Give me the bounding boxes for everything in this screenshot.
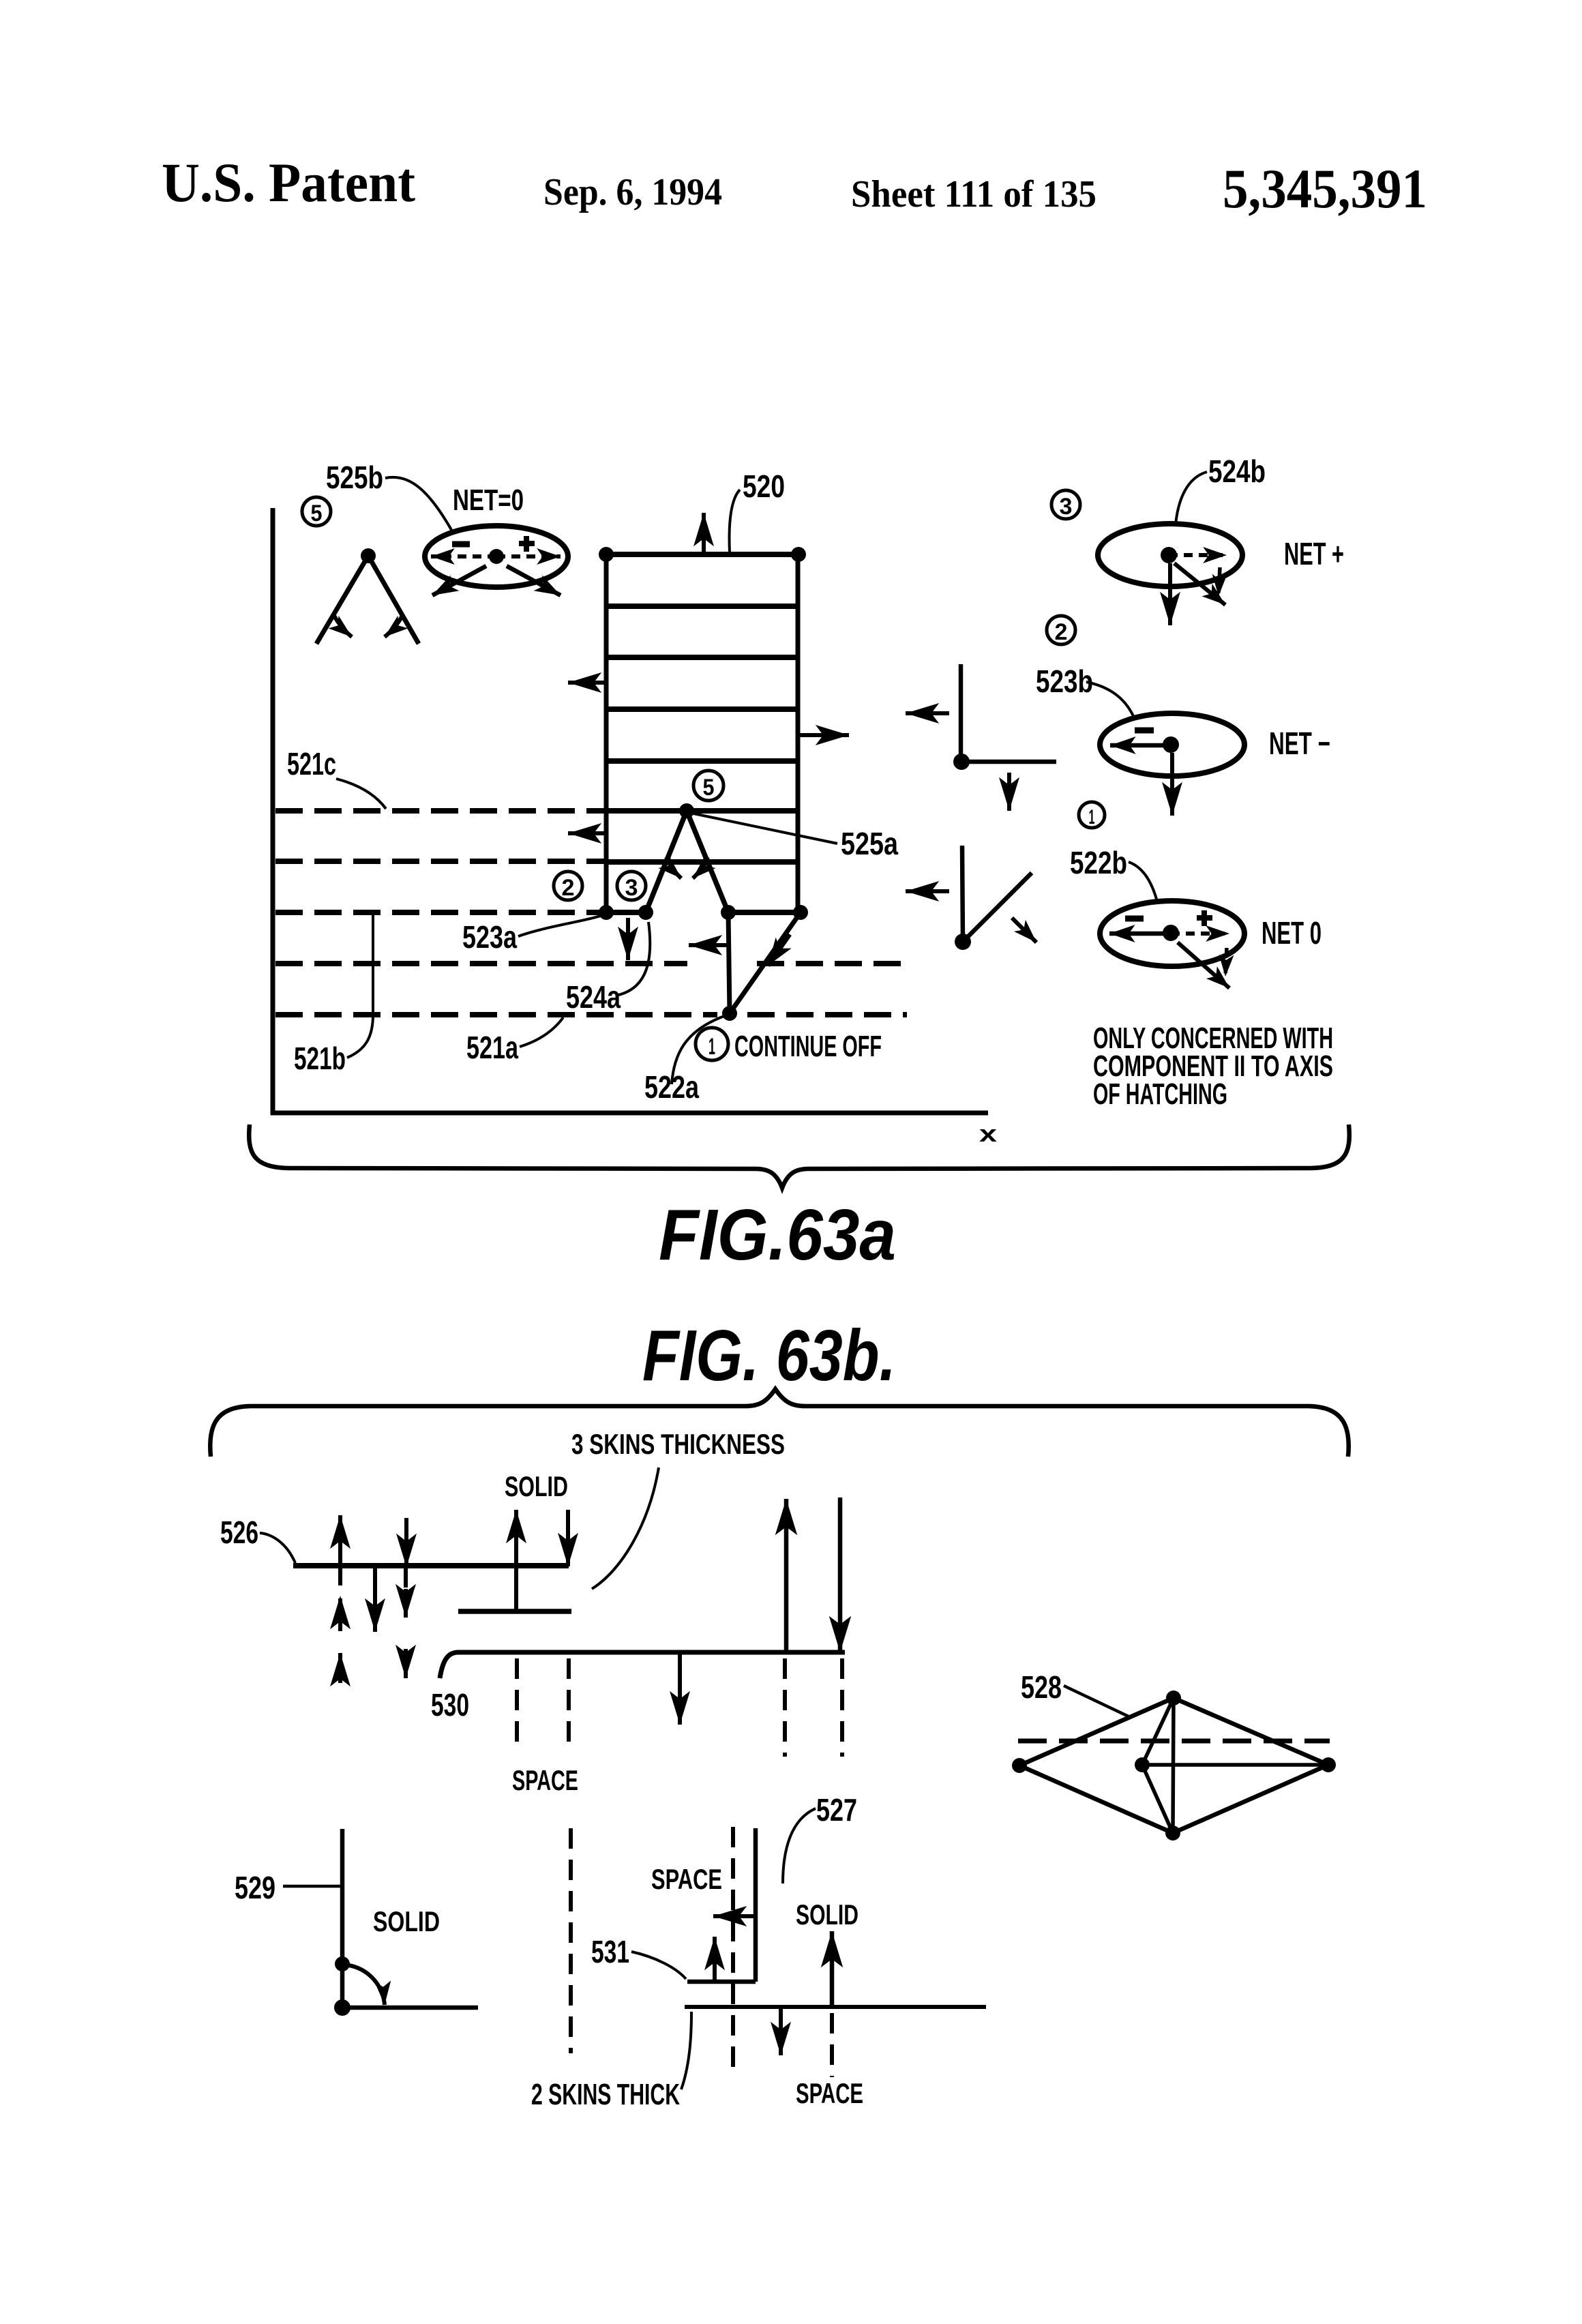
axis symbol 2 corner dot (953, 754, 970, 770)
svg-text:x: x (979, 1121, 997, 1147)
circled 5 top left (302, 497, 331, 526)
header patent number (1223, 158, 1427, 220)
dashed up arrow pair x499 (338, 1596, 342, 1683)
leader 525b (385, 477, 451, 530)
leader 522b (1129, 862, 1157, 902)
down arrow e on 526 (566, 1510, 570, 1566)
svg-text:1: 1 (1089, 806, 1095, 829)
solid vertical 527 (753, 1828, 758, 1982)
dashed center vertical 63b (569, 1828, 573, 2053)
diamond 528 vertex dots (1012, 1690, 1336, 1841)
leader 525a (690, 813, 837, 844)
ellipse NET minus left arrow (1110, 743, 1170, 748)
wire stub below 526 line (404, 1568, 408, 1588)
circled 3 (617, 871, 646, 901)
ellipse NET plus (1098, 524, 1242, 586)
leader 522a (672, 1016, 724, 1084)
svg-text:3: 3 (1060, 494, 1073, 520)
hatched region 520 right edge (796, 554, 801, 912)
FIG 63a axes (271, 508, 988, 1115)
dashed verticals below 530 left (517, 1658, 569, 1751)
ellipse NET=0 center dot (489, 549, 504, 564)
long horizontal line bottom (685, 2005, 986, 2009)
svg-text:SOLID: SOLID (505, 1470, 568, 1502)
label 527 (816, 1792, 857, 1828)
dashed line row4 (275, 961, 907, 966)
label SPACE 527 (651, 1863, 722, 1895)
ellipse NET 0 dashed down arrow (1225, 948, 1227, 977)
svg-text:5,345,391: 5,345,391 (1223, 158, 1427, 220)
ellipse NET=0 down-left arrow (432, 566, 486, 595)
angle symbol right arc arrow (385, 616, 402, 637)
label 524b (1208, 453, 1266, 489)
circled 3 right column (1051, 490, 1080, 520)
note line 1 (1093, 1022, 1333, 1055)
horizontal line 529 (342, 2006, 478, 2010)
node dot 522a (722, 1006, 737, 1021)
ellipse NET minus (1100, 713, 1244, 776)
ellipse NET plus down arrow (1168, 563, 1172, 625)
leader 520 (730, 490, 740, 552)
axis symbol 2 left arrow (906, 711, 949, 715)
header US Patent (162, 151, 415, 213)
svg-text:529: 529 (235, 1870, 275, 1905)
hatched region up arrow (702, 513, 706, 554)
ellipse NET plus dashed down arrow (1219, 567, 1220, 596)
ellipse NET minus minus sign (1135, 728, 1154, 734)
label 521c (287, 746, 336, 781)
ellipse NET 0 minus sign (1125, 916, 1144, 922)
label SPACE bottom (796, 2077, 863, 2109)
svg-text:2: 2 (1055, 619, 1068, 645)
caption FIG. 63b. (642, 1315, 896, 1396)
svg-text:Sheet 111 of 135: Sheet 111 of 135 (851, 173, 1096, 215)
angle symbol left arc arrow (334, 616, 352, 637)
circled 2 right column (1047, 616, 1075, 645)
svg-text:521a: 521a (466, 1030, 518, 1065)
label 528 (1021, 1669, 1062, 1705)
up arrow a on 526 (338, 1515, 342, 1585)
dashed line 521c row1 (275, 808, 606, 814)
down arrow c below 526 (373, 1567, 377, 1632)
dashed verticals below 530 right (785, 1658, 842, 1757)
svg-text:U.S. Patent: U.S. Patent (162, 151, 415, 213)
x axis label (979, 1121, 997, 1147)
label NET 0 (1262, 915, 1322, 951)
svg-text:FIG.63a: FIG.63a (659, 1195, 896, 1275)
note line 2 (1093, 1049, 1333, 1083)
left arrow lower from region (568, 831, 606, 835)
ellipse NET minus down arrow (1170, 753, 1174, 816)
down arrow on 530 (678, 1654, 682, 1725)
dashed vertical below bottom line (830, 2013, 834, 2077)
label 529 (235, 1870, 275, 1905)
middle skin line (458, 1609, 571, 1614)
label 3 SKINS THICKNESS (571, 1428, 785, 1460)
svg-text:524a: 524a (566, 979, 621, 1015)
up arrow 531 (713, 1937, 717, 1980)
label 521a (466, 1030, 518, 1065)
svg-text:NET=0: NET=0 (453, 483, 524, 517)
line 526 (293, 1563, 569, 1568)
axis symbol 1 left arrow (906, 889, 949, 893)
ellipse NET plus diagonal arrow (1174, 563, 1225, 605)
leader 527 (783, 1808, 816, 1883)
svg-text:NET +: NET + (1284, 536, 1344, 571)
ellipse NET 0 left arrow (1109, 932, 1170, 936)
axis symbol 1 diagonal (963, 873, 1032, 942)
leader 528 (1064, 1686, 1130, 1717)
hatched region 520 bottom edge segments (606, 910, 802, 915)
ellipse NET plus dashed right arrow (1169, 553, 1227, 557)
svg-text:FIG. 63b.: FIG. 63b. (642, 1315, 896, 1396)
left arrow 527 (713, 1914, 754, 1918)
label SPACE below 530 (512, 1764, 578, 1796)
svg-text:528: 528 (1021, 1669, 1062, 1705)
V right leg (687, 811, 728, 912)
diamond dashed line (1018, 1739, 1330, 1744)
dashed line row3 (275, 910, 603, 915)
svg-text:NET 0: NET 0 (1262, 915, 1322, 951)
svg-text:5: 5 (311, 501, 323, 526)
left arrow at vertical 522 (689, 943, 727, 947)
dashed vertical 527 group (731, 1827, 735, 2068)
svg-text:SPACE: SPACE (651, 1863, 722, 1895)
leader 523b (1086, 682, 1134, 717)
circled 1 continue off (696, 1028, 728, 1060)
svg-text:CONTINUE OFF: CONTINUE OFF (734, 1030, 882, 1063)
wire diagonal 522 (730, 912, 801, 1013)
node dots on row3 (599, 905, 808, 920)
ellipse NET=0 down-right arrow (507, 566, 561, 595)
arc arrow 529 (342, 1965, 385, 2005)
ellipse NET plus center dot (1161, 547, 1177, 563)
arrow on diagonal (768, 934, 790, 966)
apex left arc arrow (666, 857, 681, 878)
down arrow b on 526 (404, 1518, 408, 1567)
label NET minus (1269, 726, 1330, 761)
svg-text:523b: 523b (1036, 664, 1093, 699)
leader 524a (616, 922, 650, 996)
svg-text:OF HATCHING: OF HATCHING (1093, 1077, 1227, 1111)
label 520 (743, 468, 785, 504)
circled 2 (554, 871, 582, 901)
svg-text:2 SKINS THICK: 2 SKINS THICK (531, 2078, 680, 2111)
axis symbol 2 (961, 664, 1056, 762)
label CONTINUE OFF (734, 1030, 882, 1063)
svg-text:521b: 521b (294, 1041, 346, 1076)
leader 521c (336, 779, 386, 809)
header sheet (851, 173, 1096, 215)
svg-text:530: 530 (431, 1687, 469, 1723)
svg-text:521c: 521c (287, 746, 336, 781)
label SOLID top (505, 1470, 568, 1502)
leader 526 (260, 1533, 295, 1563)
circled 5 near apex (693, 771, 723, 801)
svg-text:3: 3 (625, 875, 638, 901)
svg-text:524b: 524b (1208, 453, 1266, 489)
svg-text:1: 1 (708, 1034, 715, 1060)
leader 2 skins thick (681, 2012, 691, 2089)
axis symbol 1 vertical (962, 846, 963, 942)
right arrow from region (799, 733, 849, 737)
dashed down arrow pair x595 (404, 1589, 408, 1678)
note line 3 (1093, 1077, 1227, 1111)
ellipse NET 0 diagonal arrow (1178, 942, 1229, 988)
svg-text:SOLID: SOLID (796, 1898, 859, 1931)
ellipse NET 0 center dot (1163, 925, 1179, 941)
ellipse NET minus center dot (1163, 736, 1179, 753)
svg-text:3 SKINS THICKNESS: 3 SKINS THICKNESS (571, 1428, 785, 1460)
svg-text:520: 520 (743, 468, 785, 504)
leader 531 (631, 1952, 686, 1979)
vertical line 529 (340, 1829, 345, 2008)
svg-text:522b: 522b (1070, 845, 1127, 880)
down arrow bottom (779, 2008, 783, 2055)
label 522b (1070, 845, 1127, 880)
ellipse NET 0 dashed right arrow (1171, 932, 1229, 936)
hatched region 520 hatch lines (604, 554, 801, 862)
label SOLID 529 (373, 1905, 440, 1937)
node apex dot (679, 803, 694, 818)
ellipse NET=0 minus sign (452, 541, 470, 548)
label 525b (326, 460, 383, 495)
up arrow d through 526 (514, 1510, 518, 1611)
down arrow below node 523a (626, 918, 630, 960)
label 523b (1036, 664, 1093, 699)
label 530 (431, 1687, 469, 1723)
svg-text:NET −: NET − (1269, 726, 1330, 761)
tall up arrow on 530 (784, 1499, 789, 1652)
svg-text:525b: 525b (326, 460, 383, 495)
leader 521a (520, 1017, 563, 1047)
label NET plus (1284, 536, 1344, 571)
apex right arc arrow (693, 857, 708, 878)
caption FIG.63a (659, 1195, 896, 1275)
label 523a (462, 919, 517, 955)
dashed line row5 (275, 1012, 907, 1017)
leader 523a (518, 915, 603, 936)
ellipse NET=0 dashed right arrow (496, 554, 561, 558)
label NET=0 (453, 483, 524, 517)
axis symbol 1 short diagonal arrow (1012, 918, 1036, 942)
header date (543, 171, 722, 213)
label 2 SKINS THICK (531, 2078, 680, 2111)
left arrow upper from region (568, 681, 606, 685)
svg-text:523a: 523a (462, 919, 517, 955)
ellipse NET=0 dashed left arrow (431, 554, 496, 558)
hatched region corner dots (599, 547, 806, 562)
ellipse NET 0 plus sign (1197, 910, 1212, 926)
leader 524b (1176, 472, 1207, 524)
tall up arrow bottom (830, 1931, 835, 2006)
svg-text:5: 5 (703, 775, 715, 801)
leader 521b (347, 914, 373, 1058)
angle symbol legs (316, 556, 419, 644)
leader 3 skins thickness (592, 1468, 659, 1589)
label 522a (644, 1069, 699, 1105)
svg-text:Sep. 6, 1994: Sep. 6, 1994 (543, 171, 722, 213)
ellipse NET=0 plus sign (519, 536, 535, 552)
svg-text:531: 531 (591, 1934, 629, 1969)
ellipse NET 0 (1100, 901, 1244, 966)
brace above FIG 63b (210, 1389, 1349, 1457)
label 531 (591, 1934, 629, 1969)
leader 529 (283, 1885, 341, 1888)
axis symbol 2 down arrow (1007, 773, 1011, 811)
tall down arrow on 530 (838, 1498, 843, 1652)
short horizontal 531 (687, 1980, 756, 1984)
svg-text:527: 527 (816, 1792, 857, 1828)
label 525a (841, 826, 898, 861)
angle symbol vertex dot (361, 548, 376, 563)
diamond 528 outline (1019, 1698, 1328, 1833)
line 530 (440, 1652, 845, 1678)
diamond 528 inner lines (1142, 1698, 1328, 1833)
svg-text:525a: 525a (841, 826, 898, 861)
brace under FIG 63a (249, 1124, 1349, 1188)
circled 1 right column (1079, 802, 1105, 829)
ellipse NET=0 (425, 526, 568, 587)
svg-text:SPACE: SPACE (796, 2077, 863, 2109)
V left leg (646, 811, 687, 912)
svg-text:2: 2 (562, 875, 575, 901)
axis symbol 1 corner dot (955, 934, 971, 950)
label 526 (220, 1515, 258, 1550)
hatched region 520 left edge (604, 554, 609, 912)
dashed line row2 (275, 859, 606, 864)
svg-text:SOLID: SOLID (373, 1905, 440, 1937)
label SOLID right (796, 1898, 859, 1931)
wire vertical 522 (728, 912, 730, 1013)
label 524a (566, 979, 621, 1015)
node dots 529 (334, 1956, 350, 2016)
svg-text:526: 526 (220, 1515, 258, 1550)
svg-text:SPACE: SPACE (512, 1764, 578, 1796)
label 521b (294, 1041, 346, 1076)
